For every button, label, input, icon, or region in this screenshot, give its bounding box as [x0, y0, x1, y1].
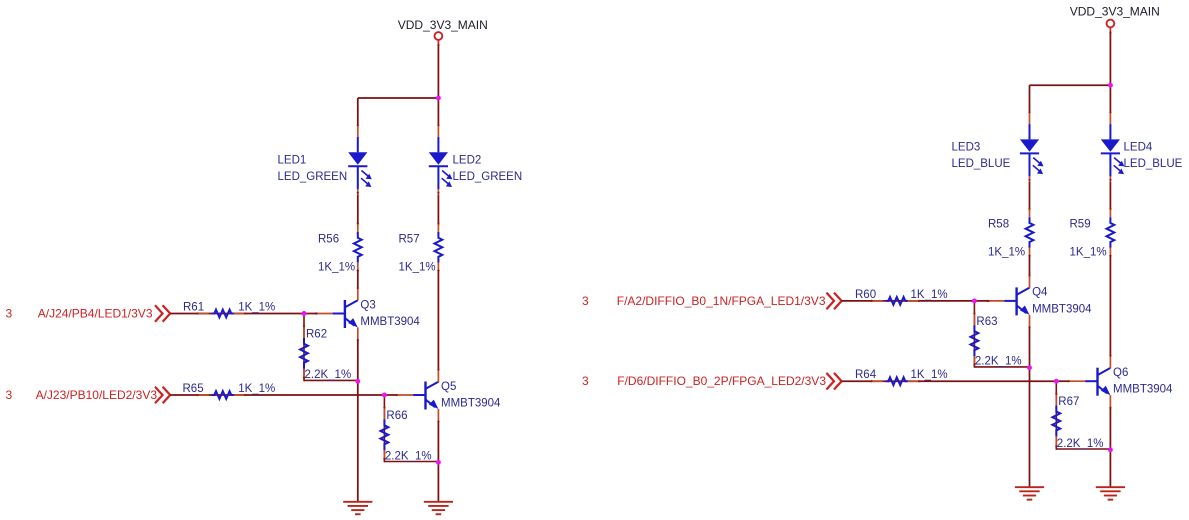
node junction [382, 393, 387, 398]
svg-text:Q5: Q5 [441, 381, 456, 393]
svg-text:2.2K_1%: 2.2K_1% [975, 356, 1022, 368]
LED LED1 LED_GREEN [278, 124, 372, 195]
wire [1109, 85, 1111, 112]
node junction [436, 460, 441, 465]
wire [358, 97, 439, 99]
resistor R61 1K_1% [183, 302, 275, 318]
wire [1109, 182, 1111, 211]
svg-text:MMBT3904: MMBT3904 [360, 316, 420, 328]
wire [357, 98, 359, 125]
svg-text:3: 3 [582, 374, 589, 388]
node junction [1054, 379, 1059, 384]
svg-text:LED_BLUE: LED_BLUE [952, 158, 1011, 170]
wire [842, 380, 1057, 382]
wire [437, 98, 439, 125]
svg-text:1K_1%: 1K_1% [399, 261, 436, 273]
svg-text:Q6: Q6 [1113, 367, 1128, 379]
node junction [972, 298, 977, 303]
wire [437, 45, 439, 98]
svg-text:LED4: LED4 [1124, 141, 1153, 153]
net label F/A2/DIFFIO_B0_1N/FPGA_LED1/3V3 [617, 294, 826, 308]
wire [1030, 84, 1111, 86]
net label A/J23/PB10/LED2/3V3 [36, 388, 158, 402]
ground [343, 502, 372, 514]
wire [1029, 255, 1031, 276]
wire [1109, 408, 1111, 487]
resistor R65 1K_1% [183, 383, 276, 399]
wire [437, 421, 439, 501]
off-page connector [826, 293, 841, 310]
resistor R56 1K_1% [318, 222, 362, 273]
svg-text:LED2: LED2 [453, 154, 482, 166]
svg-text:LED_GREEN: LED_GREEN [278, 171, 348, 183]
resistor R67 2.2K_1% [1052, 381, 1110, 450]
LED LED2 LED_GREEN [429, 124, 522, 195]
svg-text:MMBT3904: MMBT3904 [1113, 384, 1173, 396]
node junction [302, 311, 307, 316]
transistor Q5 MMBT3904 [396, 368, 501, 422]
svg-text:R63: R63 [976, 316, 997, 328]
svg-text:2.2K_1%: 2.2K_1% [385, 450, 432, 462]
svg-text:VDD_3V3_MAIN: VDD_3V3_MAIN [398, 18, 488, 32]
svg-text:R64: R64 [855, 369, 877, 381]
wire [1029, 327, 1031, 487]
resistor R60 1K_1% [855, 289, 948, 305]
LED LED4 LED_BLUE [1101, 111, 1183, 182]
svg-text:3: 3 [582, 294, 589, 308]
node junction [436, 96, 441, 101]
wire [357, 340, 359, 501]
svg-text:A/J24/PB4/LED1/3V3: A/J24/PB4/LED1/3V3 [38, 307, 153, 321]
node junction [355, 379, 360, 384]
wire [1109, 33, 1111, 86]
svg-text:F/A2/DIFFIO_B0_1N/FPGA_LED1/3V: F/A2/DIFFIO_B0_1N/FPGA_LED1/3V3 [617, 294, 826, 308]
svg-text:R67: R67 [1058, 396, 1079, 408]
svg-text:3: 3 [6, 307, 13, 321]
svg-text:LED_BLUE: LED_BLUE [1124, 158, 1183, 170]
svg-text:R61: R61 [183, 302, 204, 314]
resistor R62 2.2K_1% [300, 314, 358, 382]
wire [384, 394, 396, 396]
svg-text:LED_GREEN: LED_GREEN [453, 171, 523, 183]
svg-text:1K_1%: 1K_1% [1070, 247, 1107, 259]
svg-text:R62: R62 [306, 329, 327, 341]
transistor Q4 MMBT3904 [987, 274, 1092, 328]
wire [1029, 182, 1031, 211]
wire [437, 270, 439, 370]
transistor Q3 MMBT3904 [315, 287, 420, 341]
wire [1029, 85, 1031, 112]
svg-text:R59: R59 [1070, 219, 1091, 231]
svg-text:LED3: LED3 [952, 141, 981, 153]
resistor R58 1K_1% [988, 207, 1033, 258]
port number 3 [6, 307, 13, 321]
svg-text:2.2K_1%: 2.2K_1% [1057, 438, 1104, 450]
resistor R57 1K_1% [399, 222, 443, 273]
node junction [1027, 365, 1032, 370]
wire [357, 270, 359, 289]
svg-text:Q4: Q4 [1032, 287, 1048, 299]
ground [1015, 487, 1044, 499]
svg-text:2.2K_1%: 2.2K_1% [305, 369, 352, 381]
port number 3 [6, 388, 13, 402]
svg-text:R58: R58 [988, 219, 1009, 231]
svg-text:R56: R56 [318, 234, 339, 246]
off-page connector [155, 387, 170, 404]
power port VDD_3V3_MAIN (left) [398, 18, 488, 46]
svg-text:R60: R60 [855, 289, 876, 301]
ground [1096, 487, 1125, 499]
off-page connector [826, 373, 841, 390]
resistor R59 1K_1% [1070, 207, 1115, 258]
svg-text:1K_1%: 1K_1% [238, 383, 275, 395]
port number 3 [582, 294, 589, 308]
LED LED3 LED_BLUE [952, 111, 1044, 182]
wire [1109, 255, 1111, 356]
resistor R66 2.2K_1% [381, 395, 439, 462]
off-page connector [155, 305, 170, 322]
port number 3 [582, 374, 589, 388]
transistor Q6 MMBT3904 [1068, 355, 1173, 409]
wire [1056, 380, 1068, 382]
ground [424, 502, 453, 514]
resistor R64 1K_1% [855, 369, 948, 385]
svg-text:3: 3 [6, 388, 13, 402]
wire [170, 394, 384, 396]
svg-text:Q3: Q3 [360, 299, 375, 311]
svg-text:1K_1%: 1K_1% [911, 289, 948, 301]
net label F/D6/DIFFIO_B0_2P/FPGA_LED2/3V3 [617, 374, 826, 388]
svg-text:R57: R57 [399, 234, 420, 246]
wire [170, 313, 317, 315]
svg-text:MMBT3904: MMBT3904 [1032, 303, 1092, 315]
wire [357, 195, 359, 226]
svg-text:MMBT3904: MMBT3904 [441, 397, 501, 409]
svg-text:1K_1%: 1K_1% [911, 369, 948, 381]
svg-text:R66: R66 [386, 410, 407, 422]
svg-text:1K_1%: 1K_1% [988, 247, 1025, 259]
power port VDD_3V3_MAIN (right) [1070, 5, 1160, 34]
svg-text:1K_1%: 1K_1% [238, 302, 275, 314]
svg-text:LED1: LED1 [278, 154, 307, 166]
wire [437, 195, 439, 226]
resistor R63 2.2K_1% [971, 301, 1030, 368]
node junction [1108, 83, 1113, 88]
svg-text:A/J23/PB10/LED2/3V3: A/J23/PB10/LED2/3V3 [36, 388, 158, 402]
wire [842, 300, 990, 302]
net label A/J24/PB4/LED1/3V3 [38, 307, 153, 321]
svg-text:R65: R65 [183, 383, 204, 395]
node junction [1108, 447, 1113, 452]
svg-text:1K_1%: 1K_1% [318, 261, 355, 273]
svg-text:F/D6/DIFFIO_B0_2P/FPGA_LED2/3V: F/D6/DIFFIO_B0_2P/FPGA_LED2/3V3 [617, 374, 826, 388]
svg-text:VDD_3V3_MAIN: VDD_3V3_MAIN [1070, 5, 1160, 19]
